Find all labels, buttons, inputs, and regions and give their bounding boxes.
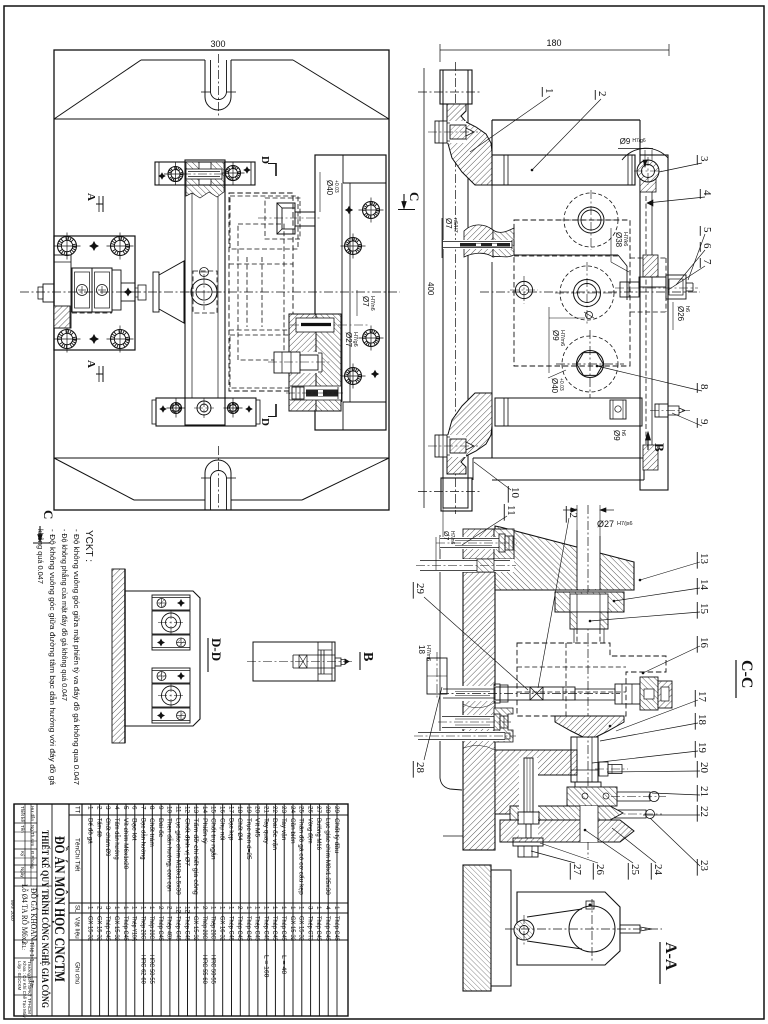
svg-text:11: 11 [175,806,182,813]
svg-text:14: 14 [698,579,710,591]
svg-text:Thép C45: Thép C45 [227,916,234,941]
CC top plate hatched [495,526,634,590]
svg-text:12: 12 [567,507,579,518]
workpiece dashed section [514,220,630,366]
svg-text:Ø9: Ø9 [612,430,621,441]
svg-text:Lục giác chìm M8x1.25x30: Lục giác chìm M8x1.25x30 [324,818,331,895]
plate bolt 1 [363,202,380,219]
workpiece dashed CC [517,643,666,716]
side plate [640,155,668,490]
rod 22-23 [602,810,646,818]
svg-text:2: 2 [95,906,102,910]
svg-text:Ng.Th.sơn: Ng.Th.sơn [30,825,35,847]
title right cells [14,939,37,941]
DD pad group2 bottom [152,708,190,723]
lever bar hatched [567,787,617,806]
svg-text:Tay vặn: Tay vặn [280,818,287,841]
pin breakout hatch right [493,228,514,257]
svg-text:C: C [41,510,56,519]
upper U slot outer [205,60,231,110]
svg-text:A: A [85,360,97,368]
DD wall hatched [112,569,125,743]
svg-text:Thép 20Cr: Thép 20Cr [148,916,155,942]
svg-text:17: 17 [227,806,234,814]
svg-text:Ø7: Ø7 [442,531,449,540]
svg-text:Ngày: Ngày [20,867,25,878]
svg-text:1: 1 [263,906,270,910]
svg-text:HRC 62-60: HRC 62-60 [139,955,146,984]
svg-text:Đ.Phong: Đ.Phong [30,851,35,869]
plate star 2 [371,370,379,378]
block lower bolt window [290,386,341,400]
upper U slot inner [211,60,227,100]
left rail [443,70,468,508]
svg-text:26: 26 [306,806,313,814]
upper thin rod [420,559,514,572]
lower bar star left [159,405,167,413]
svg-text:7: 7 [701,259,713,265]
svg-text:13: 13 [192,806,199,814]
pivot circle [191,279,217,305]
dimension 400 [423,68,425,508]
jig plate [315,155,386,430]
plan main horizontal centerline [20,291,400,293]
mid bolt hex head [494,714,500,730]
svg-text:+0.03: +0.03 [333,180,339,193]
bracket left step [54,255,71,328]
svg-text:- Độ không vuông góc giữa đườn: - Độ không vuông góc giữa đường tâm bạc … [48,529,57,785]
svg-text:Thép C45: Thép C45 [324,916,331,941]
mid bolt boss hatched [494,708,513,742]
upper bar star right [243,166,251,174]
svg-text:25: 25 [629,864,641,876]
corner boss hatched right [494,529,514,559]
bracket bolt top-right [111,237,130,256]
screw detail [138,285,146,300]
BOM column lines [69,814,348,816]
svg-text:H7/n6: H7/n6 [369,296,375,311]
svg-text:+0.03: +0.03 [558,378,564,391]
svg-text:Tỉ lệ 1:1: Tỉ lệ 1:1 [28,942,35,962]
plate star 1 [345,206,353,214]
svg-text:HRC 50-55: HRC 50-55 [210,955,217,984]
svg-text:18: 18 [417,645,426,654]
svg-text:3: 3 [698,156,710,162]
lower bar star right [245,405,253,413]
svg-text:1: 1 [245,906,252,910]
svg-text:Ø9: Ø9 [620,137,631,146]
screw nut block B [92,268,112,312]
lower clamp lug hatched [447,393,492,474]
boss bolt white band [440,537,499,549]
svg-text:Ghi chú: Ghi chú [74,962,81,985]
svg-text:Chốt trụ ngắn: Chốt trụ ngắn [210,818,219,860]
svg-text:KL:: KL: [20,942,26,951]
svg-text:27: 27 [571,864,583,876]
B view centerline [247,661,352,663]
svg-text:Thép CT3: Thép CT3 [306,916,313,941]
svg-text:24: 24 [652,864,664,876]
svg-text:Chốt Ø4: Chốt Ø4 [236,818,245,841]
clamp pad boss [277,203,295,234]
svg-text:Thép C45: Thép C45 [280,916,287,941]
svg-text:22: 22 [271,806,278,814]
pivot dashed box [193,271,217,313]
svg-text:B: B [360,652,375,661]
body left edge [491,185,493,230]
svg-text:C-C: C-C [738,660,755,688]
locating pin assembly [639,277,666,287]
svg-text:Phiến tỳ: Phiến tỳ [201,818,210,844]
svg-text:9: 9 [157,806,164,810]
left small hole [515,281,532,298]
BOM row dividers [90,804,92,1016]
AA big circle [569,906,615,952]
small pin detail [586,312,593,319]
AA small circle hatched [514,920,534,940]
B view X pin [299,655,307,668]
svg-text:Ø7: Ø7 [444,218,453,229]
upper slot ticks [201,91,211,93]
svg-text:Thép C45: Thép C45 [157,916,164,941]
bottom right bolt [655,404,668,417]
svg-text:Lỗ Ø4 TA RÔ M6x2: Lỗ Ø4 TA RÔ M6x2 [20,884,30,944]
svg-text:1: 1 [131,906,138,910]
upper bar hatch left [186,162,199,185]
section D mark bottom [275,404,277,417]
rail bottom block [441,478,472,511]
svg-text:Thiết kế: Thiết kế [20,806,25,823]
upper plate bar [492,155,635,185]
dowel pin D7 [443,240,512,249]
B view screw band [293,654,335,656]
svg-text:10: 10 [166,806,173,814]
svg-text:Thép C45: Thép C45 [175,916,182,941]
svg-text:D: D [259,156,271,164]
boss bolt hex head [499,534,505,552]
bushing middle [560,266,614,320]
svg-text:3: 3 [306,906,313,910]
CC centerline vertical [587,505,589,858]
svg-text:HRC 50-55: HRC 50-55 [148,955,155,984]
upper trapezoid boss [141,59,205,61]
svg-text:Chụ nối: Chụ nối [219,818,228,840]
svg-text:1: 1 [289,906,296,910]
lower slot ticks [201,477,211,479]
svg-text:Thép Y10A: Thép Y10A [131,916,138,942]
svg-text:Bulông M16: Bulông M16 [315,818,322,850]
AA rail strip [491,870,511,986]
svg-text:Ký: Ký [20,851,25,857]
svg-text:không quá 0.047: không quá 0.047 [36,529,45,584]
svg-text:1: 1 [87,806,94,810]
svg-text:6: 6 [701,243,713,249]
svg-text:H7/m6: H7/m6 [559,330,565,346]
front view main centerline [480,291,700,293]
pivot small circle [200,268,209,277]
svg-text:1: 1 [219,906,226,910]
rod 21 [617,792,650,801]
upper bar slot with screw [186,169,222,179]
svg-text:Tên: Tên [20,825,25,833]
svg-text:26: 26 [594,864,606,876]
svg-text:L = 40: L = 40 [280,955,287,975]
bolt 26 washer and head [513,838,543,846]
svg-text:ĐỒ ÁN MÔN HỌC CNCTM: ĐỒ ÁN MÔN HỌC CNCTM [51,836,69,982]
svg-text:1: 1 [87,906,94,910]
dim D27 top [576,505,578,530]
label D7 witness lines [442,505,444,537]
svg-text:Bạc dẫn hướng: Bạc dẫn hướng [139,818,148,860]
workpiece dashed step right [630,257,666,259]
svg-text:1: 1 [139,906,146,910]
svg-text:A: A [85,193,97,201]
AA centerlines [505,928,662,930]
screw nut block A [72,268,92,312]
svg-text:D-D: D-D [209,638,224,661]
bushing body 15 [570,612,608,629]
wall break wave lower [463,745,495,750]
svg-text:Thép C45: Thép C45 [315,916,322,941]
svg-text:h6: h6 [620,430,626,436]
rail centerline bottom [418,491,480,493]
svg-text:GX 15-32: GX 15-32 [298,916,305,941]
title block outline [14,804,348,1016]
lever pins [582,793,588,799]
svg-text:L = 160: L = 160 [263,955,270,978]
svg-text:Thép 20Cr: Thép 20Cr [201,916,208,942]
spring cone washer [153,272,159,312]
AA lever arms [527,909,582,917]
svg-text:Tay quay: Tay quay [263,818,270,844]
svg-text:1: 1 [113,906,120,910]
svg-text:14: 14 [201,806,208,814]
svg-text:Ø26: Ø26 [676,306,685,322]
svg-text:300: 300 [210,39,225,49]
lower trapezoid boss [134,499,205,501]
plate 25 [500,820,634,842]
svg-text:Ø40: Ø40 [325,180,334,196]
label D7 left [441,218,443,258]
lower bar center bolt [197,401,211,415]
svg-text:GX 16-32: GX 16-32 [219,916,226,941]
svg-text:h6: h6 [684,306,690,312]
DD pad group1 top [152,595,190,610]
svg-text:20: 20 [254,806,261,814]
svg-text:Chốt chám Ø9: Chốt chám Ø9 [104,818,113,857]
svg-text:17: 17 [696,691,708,703]
svg-text:1: 1 [333,906,340,910]
screw hex nut at wall [494,684,500,703]
svg-text:H7/g6: H7/g6 [632,138,646,144]
block bolt window [274,352,322,373]
column hatch below bar [186,185,224,198]
svg-text:C: C [407,192,422,201]
workpiece dashed pocket bottom [230,335,298,388]
rail centerline top [418,91,480,93]
svg-text:18: 18 [696,714,708,726]
svg-text:Hư.dẫn: Hư.dẫn [30,806,36,822]
svg-text:2: 2 [157,906,164,910]
plan view lower edge line [54,457,389,459]
rod head block [615,684,640,704]
svg-text:15: 15 [698,603,710,615]
position star screw [124,288,133,297]
svg-text:Ø7: Ø7 [361,296,370,307]
svg-text:Thép C45: Thép C45 [254,916,261,941]
svg-text:8: 8 [698,384,710,390]
svg-text:25: 25 [298,806,305,814]
svg-text:GX 15-32: GX 15-32 [95,916,102,941]
svg-text:19: 19 [696,742,708,754]
workpiece dashed outline [229,193,293,391]
svg-text:22: 22 [698,806,710,817]
CC body outer profile [439,535,441,694]
B view screw tip [335,658,341,666]
svg-text:Thép 20Cr: Thép 20Cr [139,916,146,942]
screw body [112,270,121,310]
clamp pin 19 [575,782,601,790]
svg-text:Ø40: Ø40 [550,378,559,394]
svg-text:GX 15-32: GX 15-32 [113,916,120,941]
svg-text:1: 1 [271,906,278,910]
svg-text:Thép C45: Thép C45 [263,916,270,941]
side plate hatch mid [643,255,658,277]
side plate hatch low [643,445,658,470]
upper bar bolt right [226,166,241,181]
BOM header divider [81,804,83,1016]
CC left wall hatched [463,572,495,850]
svg-text:GX 15-32: GX 15-32 [289,916,296,941]
svg-text:Bạc lót: Bạc lót [131,818,138,841]
plan view outer body [54,50,389,510]
long rod through wall [418,731,505,741]
B view body [253,642,335,681]
svg-text:Cần biên: Cần biên [289,818,298,844]
svg-text:Vật liệu: Vật liệu [74,917,81,939]
svg-text:24: 24 [289,806,296,814]
nut A circle [77,285,88,296]
support cylinder 18 [571,737,598,782]
plate bolt 2 [345,238,362,255]
svg-text:1: 1 [192,906,199,910]
column shaft [185,160,225,425]
svg-text:Chốt định vị Ø7: Chốt định vị Ø7 [183,818,192,866]
upper lug bolt [435,121,466,143]
svg-text:5: 5 [122,806,129,810]
svg-text:H7/g6: H7/g6 [352,332,358,347]
svg-text:11: 11 [505,505,517,516]
view B arrow [647,432,649,450]
lower bar bolt left [171,403,182,414]
pin breakout hatch left [464,225,493,257]
svg-text:29: 29 [333,806,340,814]
svg-text:Ø38: Ø38 [614,232,623,248]
svg-text:H7/k6: H7/k6 [622,232,628,246]
upper bar hatch right [211,162,224,185]
svg-text:Thép C45: Thép C45 [183,916,190,941]
svg-text:1: 1 [210,906,217,910]
svg-text:2: 2 [236,906,243,910]
svg-text:18: 18 [236,806,243,814]
svg-text:Vít chìm M6x1x20: Vít chìm M6x1x20 [122,818,129,870]
svg-text:400: 400 [426,282,435,296]
svg-text:1: 1 [315,906,322,910]
upper guide bar [155,162,255,185]
svg-text:1: 1 [148,906,155,910]
upper slot centerline [218,54,220,116]
svg-text:27: 27 [315,806,322,814]
AA bracket plate [517,892,620,965]
upper bar star left [158,172,166,180]
dimension 180 [440,49,669,51]
AA bolt right [620,925,640,933]
boss stem lines [295,211,315,213]
svg-text:- Độ không phẳng của mặt đáy đ: - Độ không phẳng của mặt đáy đồ gá không… [60,529,69,701]
nut block B hatched [658,681,672,708]
position star lower [89,334,99,344]
bracket bolt bottom-right [111,330,130,349]
upper clamp lug hatched [447,104,492,185]
svg-text:Thép C45: Thép C45 [271,916,278,941]
upper bar bolt left [168,167,183,182]
DD pad group1 mid [152,611,190,634]
svg-text:Chốt tỳ đầu: Chốt tỳ đầu [333,818,342,854]
svg-text:1: 1 [254,906,261,910]
DD pad group1 bottom [152,635,190,650]
svg-text:Thép C45: Thép C45 [236,916,243,941]
bushing lower lines [570,628,608,630]
svg-text:HRC 55-60: HRC 55-60 [201,955,208,984]
CC wide base hatched [495,750,577,814]
clamp screw horizontal [443,686,497,701]
svg-text:Tấm dẫn hướng: Tấm dẫn hướng [113,818,122,860]
svg-text:12: 12 [183,806,190,814]
lower slot centerline [218,446,220,508]
svg-text:1: 1 [122,906,129,910]
section D mark top [275,163,277,176]
svg-text:7: 7 [139,806,146,810]
svg-text:13: 13 [698,553,710,565]
svg-text:Bạc kẹp: Bạc kẹp [227,818,234,841]
wall break wave upper [463,703,494,708]
svg-text:Thép 40X: Thép 40X [166,916,173,942]
svg-text:10: 10 [509,487,521,499]
svg-text:12: 12 [175,906,182,914]
pin through plates white [580,806,598,842]
position star upper [89,241,99,251]
AA wall hatched [463,865,491,991]
svg-text:TênChi Tiết: TênChi Tiết [74,838,83,871]
svg-text:Vòng đệm: Vòng đệm [306,818,313,844]
DD pad group2 mid [152,684,190,707]
body outline [492,119,640,121]
svg-text:9: 9 [698,419,710,425]
svg-text:8: 8 [148,806,155,810]
svg-text:20: 20 [698,762,710,774]
workpiece dashed inner [238,224,284,360]
DD plate [125,591,200,726]
clamp bracket block [54,236,135,350]
svg-text:15: 15 [210,806,217,814]
svg-text:16: 16 [698,637,710,649]
plate 24 [510,806,623,820]
svg-text:GX 15-32: GX 15-32 [192,916,199,941]
bottom plate bar [495,398,642,426]
svg-text:Then dẫn hướng, con cạn: Then dẫn hướng, con cạn [166,818,175,892]
bushing bottom with hex [562,336,618,392]
nut B circle [97,285,108,296]
